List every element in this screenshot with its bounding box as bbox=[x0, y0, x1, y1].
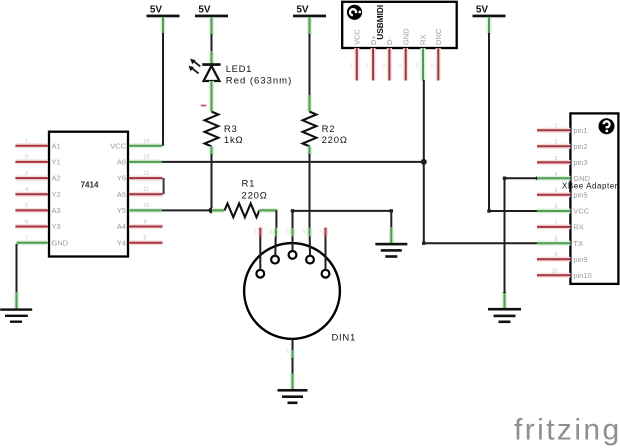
svg-text:1: 1 bbox=[350, 63, 353, 69]
svg-text:5V: 5V bbox=[150, 5, 163, 16]
svg-text:1kΩ: 1kΩ bbox=[224, 135, 244, 146]
R2 top pin bbox=[307, 95, 312, 112]
IC 7414 body bbox=[49, 132, 128, 257]
svg-text:2: 2 bbox=[366, 63, 369, 69]
svg-text:2: 2 bbox=[555, 140, 558, 146]
power symbol 5V P3 bbox=[293, 5, 326, 35]
svg-text:Red (633nm): Red (633nm) bbox=[226, 76, 292, 87]
7414 pin 6 Y3 bbox=[15, 219, 60, 231]
svg-text:A4: A4 bbox=[117, 222, 126, 231]
svg-text:3: 3 bbox=[319, 230, 322, 236]
resistor R1 bbox=[225, 204, 260, 218]
USBMIDI module body bbox=[342, 2, 457, 48]
wire DIN pin3 to ground G3 bbox=[293, 211, 392, 228]
7414 pin 12 Y6 bbox=[117, 171, 163, 183]
svg-text:A6: A6 bbox=[117, 158, 126, 167]
svg-text:3: 3 bbox=[25, 171, 28, 177]
svg-text:10: 10 bbox=[552, 269, 558, 275]
7414 pin 11 A5 bbox=[117, 187, 163, 199]
USBMIDI pin D+ bbox=[366, 35, 378, 81]
svg-text:2: 2 bbox=[286, 230, 289, 236]
svg-text:6: 6 bbox=[431, 63, 434, 69]
wire A6 to junction node bbox=[162, 161, 424, 163]
svg-text:R2: R2 bbox=[322, 124, 336, 135]
svg-text:VCC: VCC bbox=[110, 141, 126, 150]
DIN1 pin 1 lead (unconnected) bbox=[254, 228, 261, 270]
svg-text:3: 3 bbox=[382, 63, 385, 69]
wire R3 to junction bbox=[211, 154, 213, 210]
svg-text:7414: 7414 bbox=[81, 180, 99, 189]
svg-text:5V: 5V bbox=[198, 5, 211, 16]
svg-text:4: 4 bbox=[398, 63, 401, 69]
R2 bottom pin bbox=[307, 146, 312, 155]
DIN1 pad 3 bbox=[289, 251, 297, 259]
ground G3 bbox=[375, 243, 407, 258]
svg-text:pin9: pin9 bbox=[573, 255, 587, 264]
junction node B bbox=[421, 159, 427, 165]
LED D1 symbol bbox=[189, 59, 221, 81]
svg-text:13: 13 bbox=[143, 155, 149, 161]
7414 pin 3 A2 bbox=[15, 171, 60, 183]
XBee pin 3 bbox=[537, 156, 588, 167]
svg-text:9: 9 bbox=[555, 253, 558, 259]
svg-text:RX: RX bbox=[419, 35, 428, 45]
7414 pin 8 Y4 bbox=[117, 236, 163, 248]
ground G1 pin bbox=[14, 292, 19, 309]
svg-text:11: 11 bbox=[143, 187, 149, 193]
wire XBee GND to ground G4 bbox=[505, 178, 538, 294]
7414 pin 2 Y1 bbox=[15, 155, 60, 167]
XBee pin 10 bbox=[537, 269, 592, 280]
svg-text:GND: GND bbox=[52, 238, 69, 247]
svg-text:1: 1 bbox=[25, 139, 28, 145]
svg-text:GND: GND bbox=[401, 28, 410, 45]
DIN1 pin 4 lead bbox=[303, 228, 310, 256]
DIN1 pin 2 lead bbox=[269, 228, 276, 256]
svg-text:7: 7 bbox=[25, 236, 28, 242]
ground G4 bbox=[488, 308, 521, 323]
svg-text:5V: 5V bbox=[476, 5, 489, 16]
svg-text:5: 5 bbox=[25, 203, 28, 209]
svg-text:VCC: VCC bbox=[353, 29, 362, 45]
svg-text:A1: A1 bbox=[52, 141, 61, 150]
svg-text:DNC: DNC bbox=[434, 28, 443, 45]
svg-text:A3: A3 bbox=[52, 206, 61, 215]
wire 5V P1 to 7414 VCC bbox=[162, 33, 164, 146]
XBee pin 5 bbox=[537, 188, 588, 199]
wire 7414 GND to ground G1 bbox=[16, 244, 18, 293]
power symbol 5V P1 bbox=[147, 5, 180, 34]
svg-text:6: 6 bbox=[286, 349, 289, 355]
svg-text:DIN1: DIN1 bbox=[332, 333, 356, 344]
svg-text:4: 4 bbox=[555, 172, 558, 178]
wire Y6 to A5 bbox=[163, 178, 165, 194]
svg-text:Y3: Y3 bbox=[52, 222, 61, 231]
USBMIDI pin D- bbox=[382, 37, 394, 81]
svg-text:Y2: Y2 bbox=[52, 190, 61, 199]
XBee Adapter body bbox=[562, 113, 618, 284]
svg-text:14: 14 bbox=[143, 139, 149, 145]
ground G3 pin bbox=[389, 227, 394, 244]
DIN1 pad 5 bbox=[322, 270, 330, 278]
svg-text:6: 6 bbox=[555, 204, 558, 210]
DIN1 pad 4 bbox=[306, 256, 314, 264]
wire 5V P2 to LED1 anode bbox=[211, 34, 213, 53]
svg-text:5: 5 bbox=[303, 230, 306, 236]
ground G2 bbox=[278, 389, 308, 404]
wire 5V P3 to R2 bbox=[309, 34, 311, 97]
XBee pin 7 RX bbox=[537, 220, 584, 231]
svg-text:TX: TX bbox=[573, 239, 583, 248]
R1 right pin bbox=[259, 208, 277, 213]
DIN1 pad 2 bbox=[271, 256, 279, 264]
svg-text:3: 3 bbox=[555, 156, 558, 162]
7414 pin 13 A6 bbox=[117, 155, 162, 167]
power symbol 5V P4 bbox=[473, 5, 506, 34]
resistor R2 bbox=[303, 112, 317, 147]
svg-text:7: 7 bbox=[555, 220, 558, 226]
svg-text:6: 6 bbox=[25, 219, 28, 225]
resistor R1 left pin bbox=[212, 208, 225, 213]
svg-text:USBMIDI: USBMIDI bbox=[375, 5, 385, 40]
svg-text:A2: A2 bbox=[52, 174, 61, 183]
7414 pin 10 Y5 bbox=[117, 203, 162, 215]
svg-text:10: 10 bbox=[143, 203, 149, 209]
svg-text:D+: D+ bbox=[369, 35, 378, 45]
svg-text:5V: 5V bbox=[296, 5, 309, 16]
wire R1 to DIN pin2 bbox=[275, 210, 277, 228]
DIN1 pin 3 lead bbox=[286, 228, 293, 251]
DIN1 pad 1 bbox=[256, 270, 264, 278]
svg-text:pin1: pin1 bbox=[573, 126, 587, 135]
svg-text:VCC: VCC bbox=[573, 207, 589, 216]
USBMIDI pin VCC bbox=[350, 29, 362, 81]
svg-text:fritzing: fritzing bbox=[514, 414, 620, 447]
svg-text:4: 4 bbox=[269, 230, 272, 236]
ground G4 pin bbox=[502, 293, 507, 309]
svg-text:R1: R1 bbox=[242, 179, 256, 190]
svg-text:9: 9 bbox=[143, 219, 146, 225]
power symbol 5V P2 bbox=[195, 5, 228, 35]
7414 pin 1 A1 bbox=[15, 139, 60, 151]
svg-text:A5: A5 bbox=[117, 190, 126, 199]
svg-text:Y4: Y4 bbox=[117, 238, 126, 247]
wire down to ground G3 bbox=[390, 211, 392, 229]
wire junction B down to XBee TX bbox=[424, 162, 537, 243]
svg-text:LED1: LED1 bbox=[226, 64, 252, 75]
7414 pin 14 VCC bbox=[110, 139, 162, 151]
svg-text:Y5: Y5 bbox=[117, 206, 126, 215]
svg-text:220Ω: 220Ω bbox=[242, 190, 268, 201]
7414 pin 4 Y2 bbox=[15, 187, 60, 199]
ground G2 pin bbox=[290, 374, 295, 390]
XBee pin 9 bbox=[537, 253, 588, 264]
svg-text:12: 12 bbox=[143, 171, 149, 177]
junction node (Y5 / R3 / R1) bbox=[209, 207, 215, 213]
XBee pin 1 bbox=[537, 124, 588, 135]
svg-text:8: 8 bbox=[143, 236, 146, 242]
wire DIN bottom to ground G2 bbox=[292, 358, 294, 375]
XBee pin 4 GND bbox=[537, 172, 591, 183]
XBee pin 6 VCC bbox=[537, 204, 590, 215]
svg-text:RX: RX bbox=[573, 223, 583, 232]
svg-text:GND: GND bbox=[573, 174, 590, 183]
wire 5V P4 to XBee VCC bbox=[489, 33, 537, 211]
7414 pin 5 A3 bbox=[15, 203, 60, 215]
DIN1 bottom pin bbox=[292, 339, 294, 351]
svg-text:2: 2 bbox=[25, 155, 28, 161]
USBMIDI pin DNC bbox=[431, 28, 443, 80]
wire R2 to DIN pin4 bbox=[309, 154, 311, 228]
LED1 top pin bbox=[209, 51, 214, 65]
svg-text:1: 1 bbox=[254, 230, 257, 236]
svg-text:Y1: Y1 bbox=[52, 158, 61, 167]
XBee pin 2 bbox=[537, 140, 588, 151]
USBMIDI pin GND bbox=[398, 28, 410, 81]
svg-text:5: 5 bbox=[555, 188, 558, 194]
svg-text:pin10: pin10 bbox=[573, 271, 591, 280]
7414 pin 7 GND bbox=[17, 236, 69, 248]
svg-text:8: 8 bbox=[555, 237, 558, 243]
svg-text:5: 5 bbox=[416, 63, 419, 69]
DIN1 pin 5 lead (unconnected) bbox=[319, 228, 326, 270]
svg-text:D-: D- bbox=[385, 37, 394, 45]
svg-text:Y6: Y6 bbox=[117, 174, 126, 183]
7414 pin 9 A4 bbox=[117, 219, 163, 231]
svg-text:pin5: pin5 bbox=[573, 190, 587, 199]
svg-text:pin2: pin2 bbox=[573, 142, 587, 151]
ground G1 bbox=[0, 308, 32, 323]
LED1 bottom pin / R3 top pin bbox=[209, 81, 214, 112]
resistor R3 bbox=[205, 112, 219, 147]
svg-text:pin3: pin3 bbox=[573, 158, 587, 167]
svg-text:1: 1 bbox=[555, 124, 558, 130]
XBee pin 8 TX bbox=[537, 237, 583, 248]
DIN1 connector body bbox=[244, 243, 356, 344]
R3 bottom pin bbox=[209, 146, 214, 155]
svg-text:4: 4 bbox=[25, 187, 28, 193]
wire USBMIDI RX down to junction node B bbox=[423, 80, 425, 162]
svg-text:220Ω: 220Ω bbox=[322, 135, 348, 146]
USBMIDI pin RX bbox=[416, 35, 428, 81]
svg-text:R3: R3 bbox=[224, 124, 238, 135]
wire Y5 to junction bbox=[162, 209, 212, 211]
